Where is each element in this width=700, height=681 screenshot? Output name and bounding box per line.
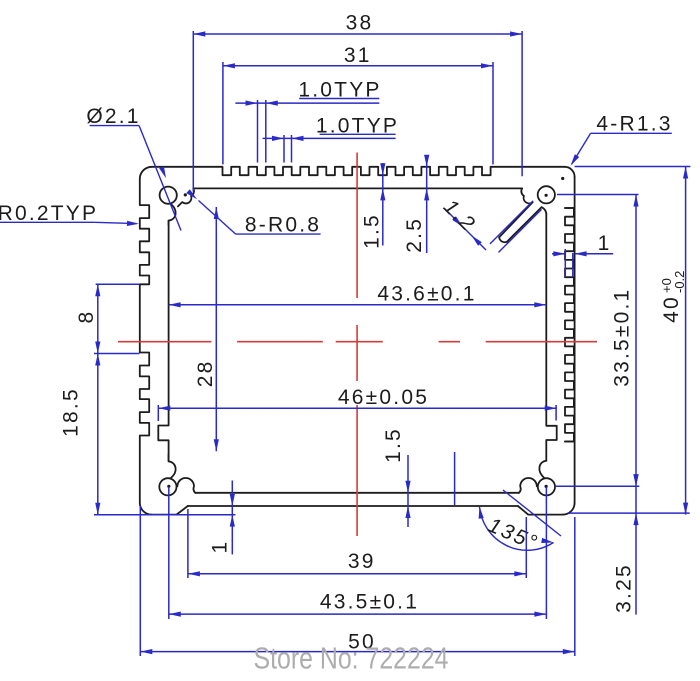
label 4-R1.3 with leader bbox=[571, 113, 673, 166]
svg-text:31: 31 bbox=[344, 44, 372, 67]
bottom-right corner arc R1.3 bbox=[563, 503, 575, 515]
bottom outer edge left bbox=[152, 514, 177, 516]
svg-text:Ø2.1: Ø2.1 bbox=[86, 105, 140, 128]
dimension 18.5 left bbox=[60, 354, 101, 515]
svg-text:40: 40 bbox=[660, 295, 683, 323]
svg-text:3.25: 3.25 bbox=[613, 563, 636, 613]
dimension 2.5 top bbox=[403, 155, 429, 253]
right wall inner serrated strip bbox=[565, 208, 575, 442]
left outer wall with cooling fins bbox=[140, 179, 149, 503]
dimension 31 bbox=[223, 44, 493, 165]
bottom-right screw boss circle bbox=[519, 461, 555, 496]
bottom recess floor bbox=[188, 505, 518, 507]
bottom-left screw boss circle bbox=[159, 454, 195, 495]
dimension 1 bottom left bbox=[94, 481, 235, 555]
right outer wall bbox=[574, 177, 576, 503]
cavity floor bbox=[195, 492, 519, 494]
left inner wall with groove bbox=[158, 221, 168, 462]
vertical red centerline bbox=[356, 153, 358, 537]
svg-text:1: 1 bbox=[598, 232, 612, 255]
bottom recess chamfer 135deg right bbox=[518, 506, 528, 515]
svg-text:Store No: 722224: Store No: 722224 bbox=[254, 641, 449, 676]
dimension 43.6±0.1 bbox=[169, 282, 547, 307]
top-left screw boss circle ø2.1 bbox=[160, 187, 194, 225]
svg-text:38: 38 bbox=[346, 12, 374, 35]
dimension 1.2 slot bbox=[439, 195, 542, 252]
dimension 28 bbox=[194, 207, 219, 451]
svg-text:46±0.05: 46±0.05 bbox=[338, 386, 429, 409]
dimension 40 +0/-0.2 right bbox=[568, 167, 690, 515]
dimension 1.5 bottom bbox=[382, 427, 455, 527]
dimension 1.0TYP tooth width bbox=[263, 115, 400, 163]
bottom-left corner arc R1.3 bbox=[140, 503, 152, 515]
svg-text:-0.2: -0.2 bbox=[672, 271, 687, 293]
dimension 43.5±0.1 bbox=[169, 487, 547, 619]
top-right screw boss circle with 1.2 slot bbox=[499, 177, 564, 242]
svg-text:8-R0.8: 8-R0.8 bbox=[245, 214, 321, 237]
svg-text:2.5: 2.5 bbox=[403, 217, 426, 253]
inner ceiling bbox=[193, 187, 522, 189]
svg-text:43.6±0.1: 43.6±0.1 bbox=[377, 282, 476, 305]
svg-text:8: 8 bbox=[75, 310, 98, 324]
dimension 38 bbox=[193, 12, 522, 192]
dimension 8 left bbox=[75, 284, 140, 353]
watermark Store No: 722224 bbox=[254, 641, 449, 676]
svg-text:1.5: 1.5 bbox=[382, 427, 405, 463]
dimension 1.0TYP teeth notch bbox=[235, 78, 381, 162]
label R0.2TYP with leader bbox=[0, 202, 139, 226]
svg-text:4-R1.3: 4-R1.3 bbox=[596, 113, 672, 136]
top-left corner arc R1.3 bbox=[140, 167, 152, 179]
svg-text:39: 39 bbox=[348, 550, 376, 573]
dimension 1 wall right bbox=[552, 232, 613, 277]
dimension 39 bbox=[188, 509, 526, 578]
bottom recess chamfer left bbox=[177, 506, 188, 515]
dimension 3.25 right bbox=[613, 474, 639, 614]
svg-text:R0.2TYP: R0.2TYP bbox=[0, 202, 98, 225]
dimension 50 bbox=[140, 506, 575, 656]
dimension 1.5 top bbox=[361, 163, 386, 249]
top wall outer surface with serrations bbox=[152, 167, 565, 175]
label ø2.1 with leader bbox=[86, 105, 181, 231]
dimension 33.5±0.1 right bbox=[555, 195, 639, 487]
horizontal red centerline (dashed) bbox=[118, 341, 597, 343]
bottom outer edge right bbox=[528, 514, 563, 516]
svg-text:1: 1 bbox=[209, 540, 232, 554]
svg-text:18.5: 18.5 bbox=[60, 387, 83, 437]
dimension 135° angle bbox=[479, 490, 561, 555]
top-right corner arc R1.3 bbox=[565, 167, 575, 177]
right web wall with groove bbox=[546, 214, 556, 461]
svg-text:28: 28 bbox=[194, 360, 217, 388]
svg-text:33.5±0.1: 33.5±0.1 bbox=[611, 288, 634, 387]
svg-text:43.5±0.1: 43.5±0.1 bbox=[320, 591, 419, 614]
svg-text:1.5: 1.5 bbox=[361, 213, 384, 249]
label 8-R0.8 with leader bbox=[186, 189, 321, 237]
dimension 46±0.05 bbox=[158, 386, 556, 421]
